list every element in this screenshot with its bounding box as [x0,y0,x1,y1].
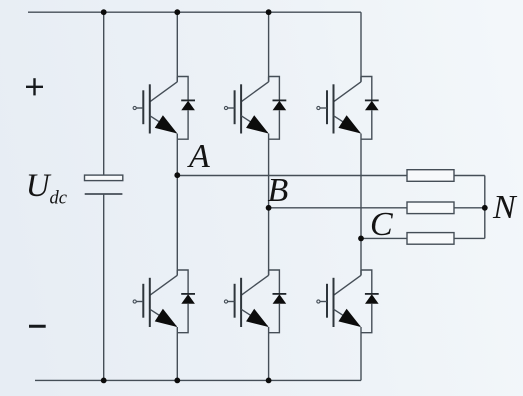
node junction bottom capacitor [101,378,107,384]
label plus polarity [26,78,43,95]
svg-text:A: A [187,138,210,175]
wire phase A output [177,175,407,177]
wire leg B upper segment [268,12,270,82]
diode D5 [361,77,379,140]
wire top DC rail [28,11,361,13]
wire neutral bus vertical [484,176,486,239]
wire bottom DC rail [35,379,361,381]
svg-text:N: N [492,189,518,226]
wire leg A upper segment [176,12,178,82]
svg-text:B: B [268,172,289,209]
transistor Q4 lower phase B [224,270,268,327]
wire R1 to neutral bus [454,175,485,177]
wire leg C middle segment [360,134,362,276]
diode D4 [269,270,287,333]
wire R3 to neutral bus [454,237,485,239]
wire leg C lower segment [360,327,362,380]
node A [174,172,180,178]
node C [358,236,364,242]
transistor Q1 upper phase A [133,77,177,134]
wire capacitor branch upper [103,12,105,175]
node N [482,205,488,211]
transistor Q2 lower phase A [133,270,177,327]
label minus polarity [29,325,46,328]
resistor R3 phase C [407,233,454,245]
transistor Q3 upper phase B [224,77,268,134]
svg-text:C: C [370,206,393,243]
wire phase C output [361,237,407,239]
transistor Q6 lower phase C [317,270,361,327]
diode D3 [269,77,287,140]
node junction top leg B [266,9,272,15]
node junction bottom leg B [266,378,272,384]
node junction top capacitor [101,9,107,15]
wire leg B middle segment [268,134,270,276]
diode D1 [177,77,195,140]
wire leg A middle segment [176,134,178,276]
node junction bottom leg A [174,378,180,384]
wire leg A lower segment [176,327,178,380]
wire phase B output [269,207,407,209]
capacitor C1 [85,175,123,194]
transistor Q5 upper phase C [317,77,361,134]
wire capacitor branch lower [103,194,105,380]
resistor R1 phase A [407,170,454,182]
wire leg B lower segment [268,327,270,380]
node junction top leg A [174,9,180,15]
diode D6 [361,270,379,333]
wire R2 to neutral bus [454,207,485,209]
diode D2 [177,270,195,333]
wire leg C upper segment [360,12,362,82]
node B [266,205,272,211]
resistor R2 phase B [407,202,454,214]
